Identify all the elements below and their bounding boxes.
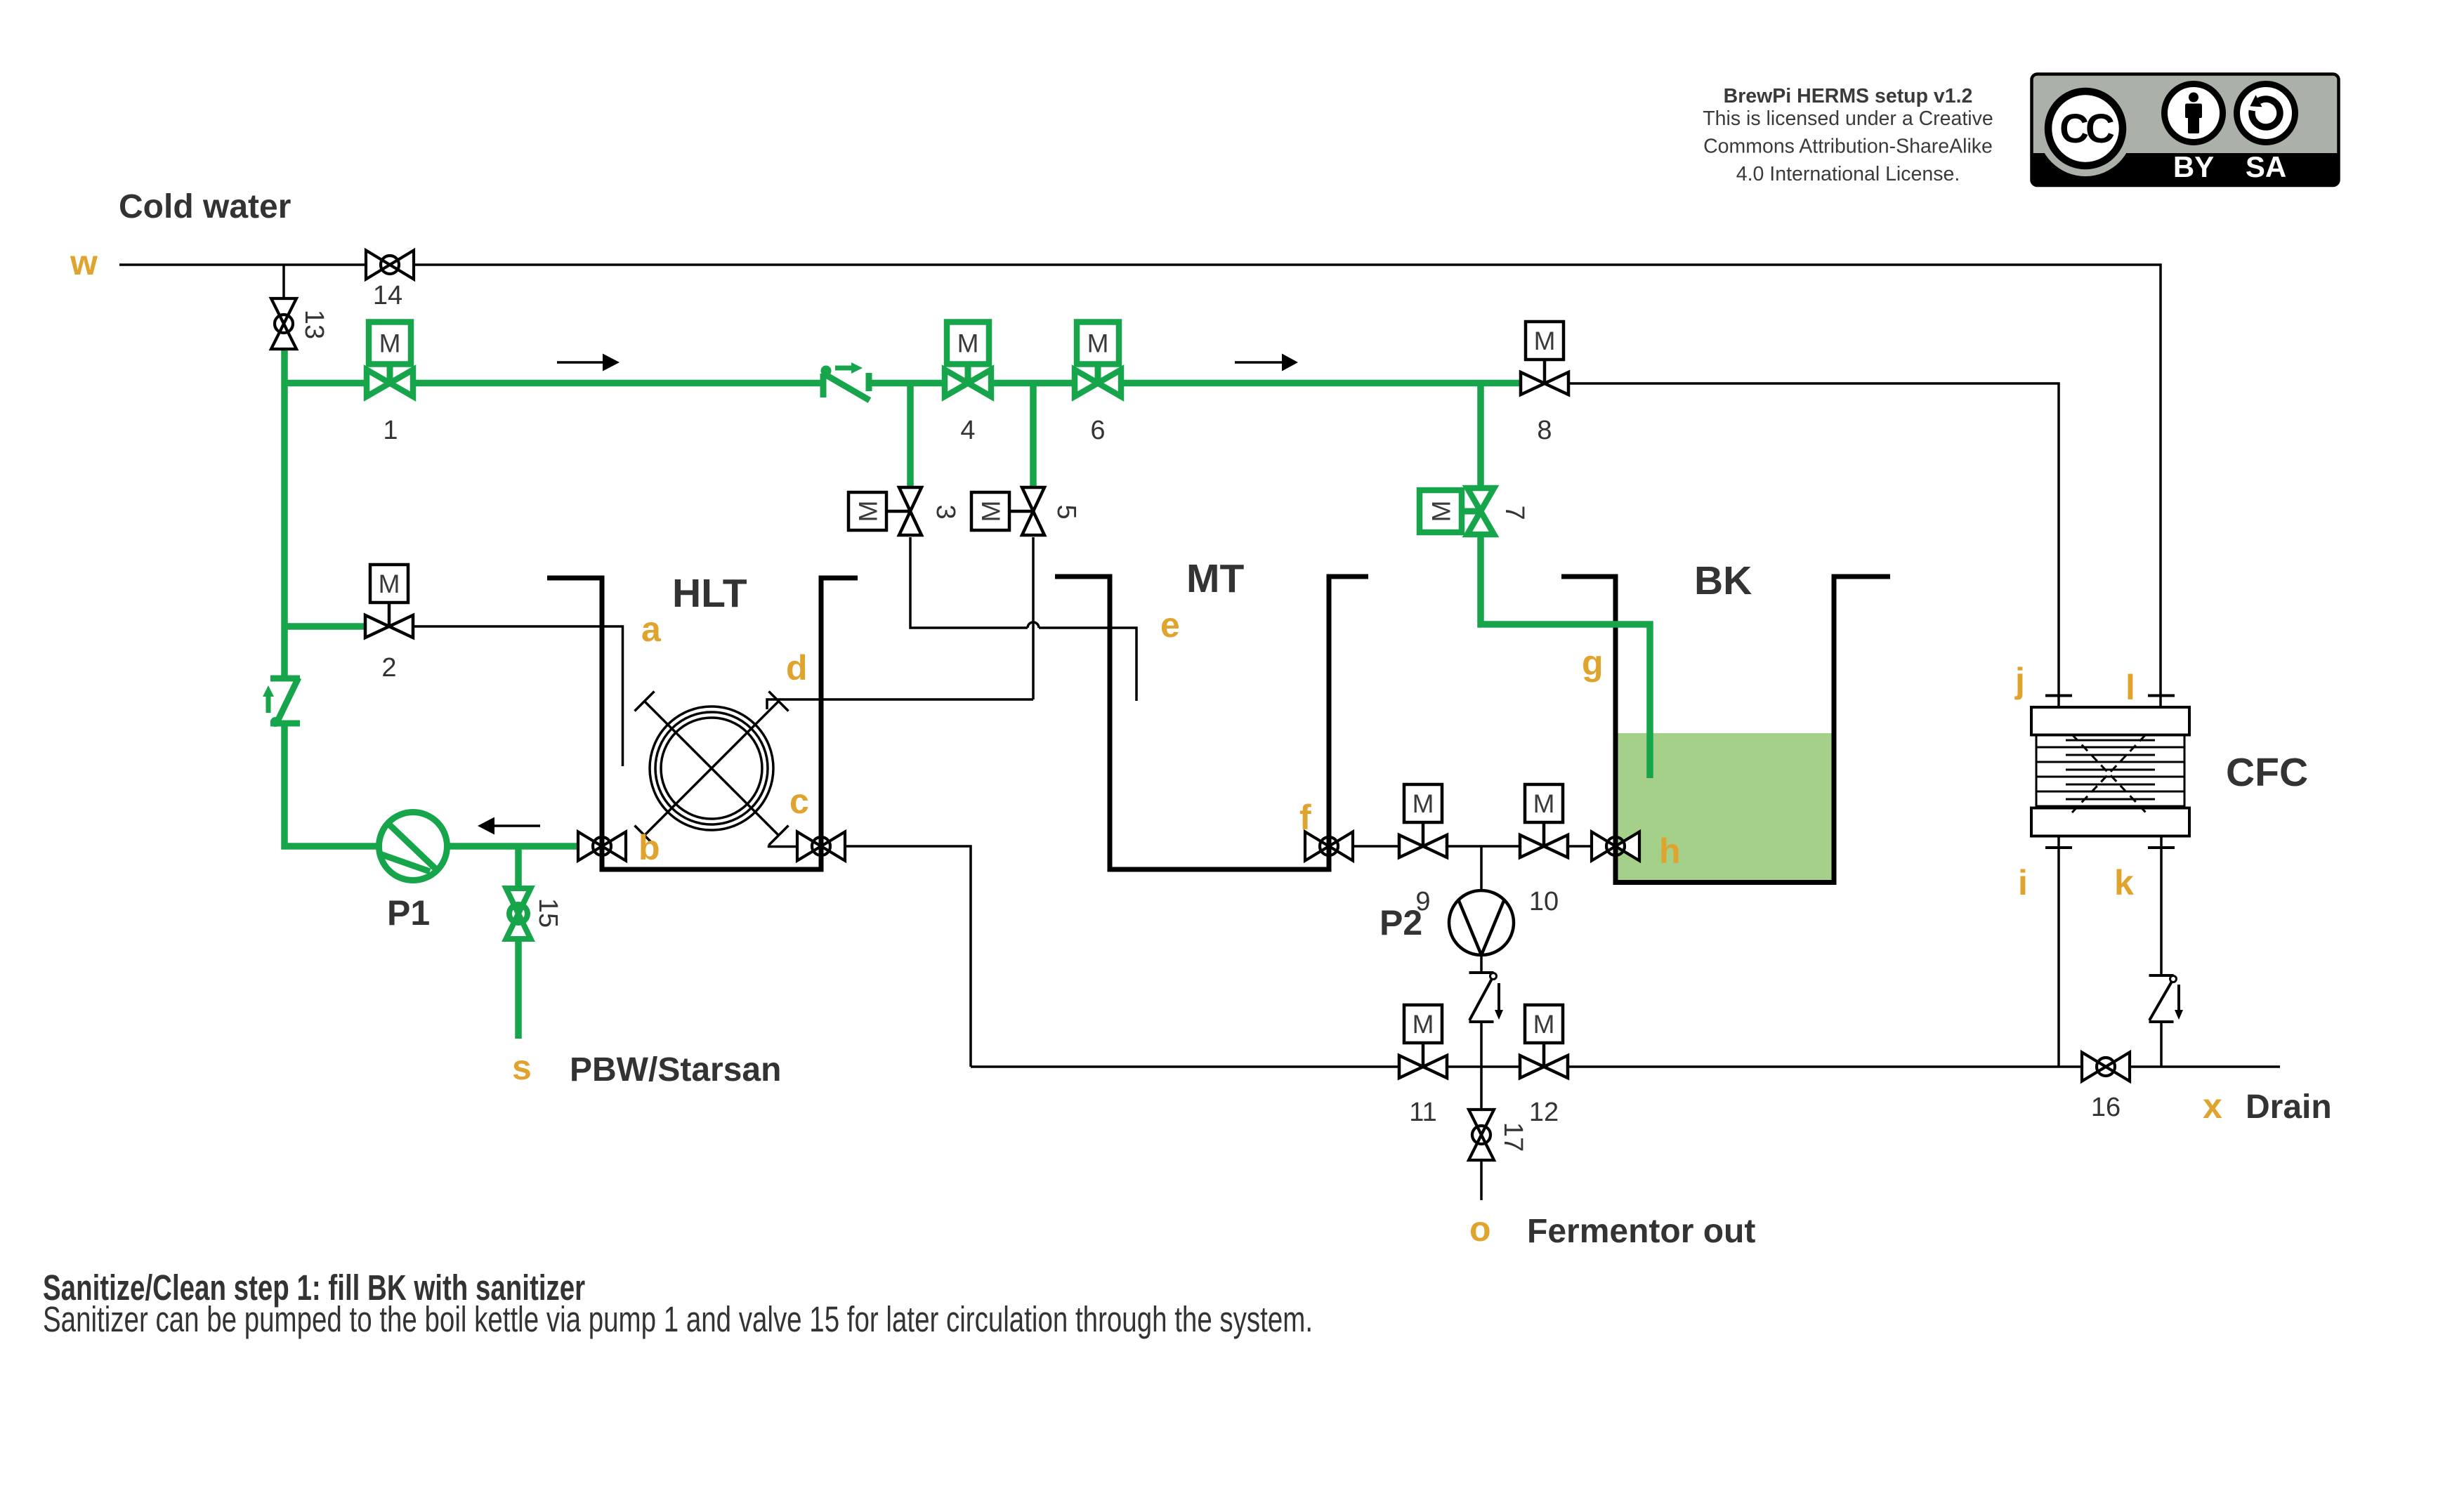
svg-text:l: l (2125, 668, 2135, 707)
svg-text:MT: MT (1186, 556, 1244, 601)
svg-text:PBW/Starsan: PBW/Starsan (570, 1051, 781, 1088)
svg-text:P1: P1 (387, 893, 430, 933)
svg-text:Fermentor out: Fermentor out (1527, 1213, 1755, 1250)
svg-text:w: w (70, 243, 98, 282)
svg-text:f: f (1299, 798, 1311, 837)
svg-text:CC: CC (2059, 106, 2114, 152)
svg-text:g: g (1582, 643, 1604, 683)
svg-text:11: 11 (1409, 1098, 1436, 1127)
svg-text:k: k (2114, 863, 2134, 902)
svg-text:e: e (1160, 605, 1180, 645)
svg-text:12: 12 (1529, 1098, 1559, 1127)
svg-text:Commons Attribution-ShareAlike: Commons Attribution-ShareAlike (1703, 136, 1993, 158)
svg-text:5: 5 (1051, 504, 1081, 519)
svg-text:13: 13 (299, 310, 329, 339)
svg-text:d: d (786, 648, 808, 688)
svg-text:6: 6 (1090, 416, 1105, 445)
svg-text:17: 17 (1498, 1122, 1528, 1152)
svg-text:j: j (2014, 661, 2025, 700)
svg-text:14: 14 (373, 281, 402, 310)
svg-text:Cold water: Cold water (119, 188, 291, 225)
svg-text:BY: BY (2173, 150, 2214, 183)
svg-text:x: x (2203, 1086, 2222, 1126)
svg-text:4: 4 (960, 416, 975, 445)
svg-text:2: 2 (381, 653, 396, 683)
svg-text:h: h (1659, 831, 1681, 871)
svg-text:8: 8 (1537, 416, 1552, 445)
svg-text:3: 3 (931, 504, 960, 519)
svg-text:Drain: Drain (2246, 1088, 2332, 1126)
svg-text:a: a (641, 610, 662, 649)
svg-text:s: s (512, 1048, 532, 1087)
svg-text:4.0 International License.: 4.0 International License. (1736, 163, 1960, 185)
svg-text:CFC: CFC (2226, 750, 2308, 795)
svg-text:P2: P2 (1380, 903, 1422, 942)
svg-text:HLT: HLT (672, 571, 747, 616)
svg-text:i: i (2018, 863, 2028, 902)
svg-text:1: 1 (383, 416, 398, 445)
svg-text:15: 15 (533, 898, 563, 928)
svg-text:b: b (638, 828, 660, 867)
svg-text:SA: SA (2246, 150, 2286, 183)
svg-text:c: c (789, 782, 809, 821)
svg-text:16: 16 (2091, 1093, 2121, 1122)
svg-text:BK: BK (1694, 558, 1752, 603)
svg-text:BrewPi HERMS setup v1.2: BrewPi HERMS setup v1.2 (1724, 85, 1973, 107)
svg-text:o: o (1469, 1209, 1491, 1249)
svg-text:Sanitizer can be pumped to the: Sanitizer can be pumped to the boil kett… (43, 1299, 1313, 1340)
svg-text:This is licensed under a Creat: This is licensed under a Creative (1703, 107, 1993, 130)
svg-text:10: 10 (1529, 887, 1559, 916)
svg-text:7: 7 (1500, 505, 1529, 520)
